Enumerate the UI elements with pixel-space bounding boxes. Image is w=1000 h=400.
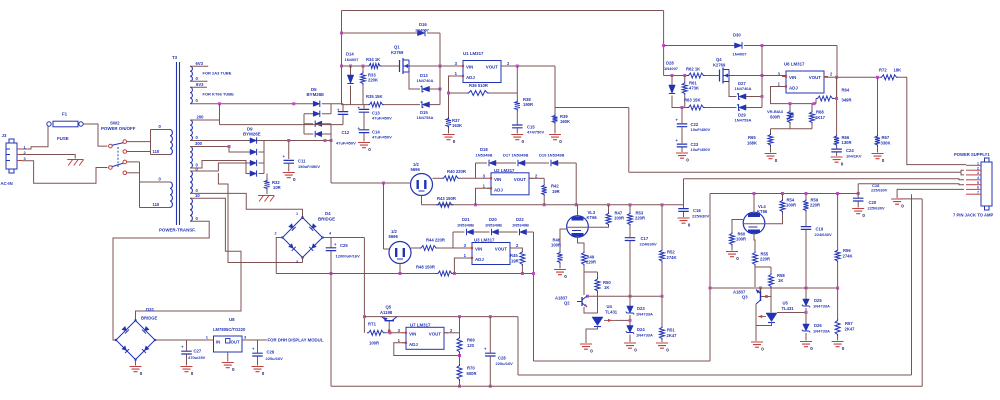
svg-text:C20: C20 [869, 200, 877, 205]
svg-text:10: 10 [195, 193, 200, 198]
zener D13 1N4740A [422, 86, 430, 91]
capacitor C25 12000uF/16V [330, 238, 332, 248]
svg-text:0: 0 [564, 274, 567, 279]
resistor R55 220R [754, 233, 755, 251]
svg-text:1: 1 [296, 212, 298, 216]
wire SW2 pole2 outputs to primary P2 [127, 161, 140, 163]
capacitor C28 220u/16V [489, 317, 491, 353]
transformer secondary S2 6V3 KT66 [190, 87, 192, 103]
svg-text:C12: C12 [342, 130, 350, 135]
svg-text:220R: 220R [586, 260, 596, 265]
svg-text:POWER ON/OFF: POWER ON/OFF [101, 126, 136, 131]
svg-text:130R: 130R [842, 140, 852, 145]
wire U3 VOUT R45 [510, 248, 522, 250]
svg-text:100R: 100R [369, 341, 379, 346]
svg-text:100R: 100R [786, 203, 796, 208]
regulator U8 LM7805C/TO220 [214, 336, 243, 352]
transistor Q5 A1198 [385, 320, 395, 322]
svg-text:0: 0 [453, 139, 456, 144]
resistor R50 1K [584, 271, 598, 273]
svg-text:K2769: K2769 [713, 63, 726, 68]
wire U8 output [242, 339, 267, 341]
wire VL3 grid to R47 [568, 226, 609, 227]
wire U4 anode to ground [586, 326, 598, 343]
resistor R60 100R [732, 220, 743, 233]
svg-text:BRIDGE: BRIDGE [141, 316, 157, 321]
tube V2 half 5696 [389, 242, 411, 264]
wire SW2 pole1 outputs to primary P1 [127, 141, 151, 143]
svg-text:190R: 190R [523, 102, 533, 107]
ground D26 [800, 342, 812, 347]
svg-text:1K: 1K [604, 285, 609, 290]
svg-text:5: 5 [977, 181, 979, 185]
transformer T3 core [177, 62, 180, 225]
svg-text:U5: U5 [783, 301, 789, 306]
wire to tube2 [383, 183, 385, 249]
wire 200 tap riser [219, 104, 221, 125]
svg-text:IN: IN [216, 340, 220, 345]
svg-text:300: 300 [195, 141, 203, 146]
svg-text:10uF/450V: 10uF/450V [691, 127, 711, 132]
svg-text:U3 LM317: U3 LM317 [474, 238, 495, 243]
wire loop bottom to VL4 rail [534, 360, 711, 362]
transformer secondary S3 200V [190, 120, 192, 141]
svg-text:R72: R72 [879, 68, 887, 73]
resistor R39 160K [554, 108, 556, 115]
svg-text:R57: R57 [845, 321, 853, 326]
svg-text:2K47: 2K47 [667, 333, 678, 338]
svg-text:1N4007: 1N4007 [415, 28, 430, 33]
diode string D18 D17 D19 [476, 162, 488, 164]
regulator U1 LM317 [463, 61, 501, 83]
resistor R68 1K17 [811, 104, 813, 111]
svg-text:224/630V: 224/630V [640, 242, 657, 247]
resistor R48 150R [436, 271, 453, 276]
tube VL4 KT66 [753, 194, 755, 213]
wire U5 anode to ground [756, 322, 772, 326]
resistor R67 330K [877, 77, 879, 134]
svg-text:R36 510R: R36 510R [469, 83, 488, 88]
svg-text:0: 0 [522, 139, 525, 144]
svg-text:POWER-TRANSF.: POWER-TRANSF. [159, 228, 196, 233]
zener D26 1N4733A [803, 324, 810, 331]
svg-text:VOUT: VOUT [429, 331, 442, 336]
svg-text:R67: R67 [882, 135, 890, 140]
wire D30 output vertical [761, 46, 763, 108]
svg-text:349R: 349R [842, 98, 852, 103]
svg-text:R42: R42 [551, 184, 559, 189]
capacitor C13 47uF/450V [363, 105, 365, 109]
svg-text:2: 2 [275, 232, 277, 236]
resistor R64 349R [816, 96, 834, 101]
svg-text:0: 0 [232, 367, 235, 372]
wire D4 minus to bus [276, 238, 282, 274]
svg-text:U8: U8 [229, 317, 235, 322]
svg-text:VIN: VIN [494, 177, 501, 182]
svg-text:0: 0 [842, 346, 845, 351]
zener D23 1N4733A [629, 305, 631, 306]
resistor R49 220R [578, 237, 585, 252]
wire U2 string riser [475, 163, 477, 178]
transistor Q4 K2769 [720, 68, 724, 84]
transformer primary winding P2 [170, 182, 172, 208]
chassis ground AC [67, 160, 84, 166]
svg-text:D25: D25 [814, 298, 822, 303]
wire pin5 row [858, 184, 964, 185]
resistor R32 10R [266, 174, 268, 180]
svg-text:1K17: 1K17 [815, 115, 826, 120]
wire U6 ADJ network [771, 87, 817, 104]
diode string D21 D20 D22 [453, 231, 465, 233]
svg-text:ADJ: ADJ [409, 342, 418, 347]
zener D27 1N4740A [739, 94, 747, 99]
svg-text:C16: C16 [693, 208, 701, 213]
svg-text:47uF/450V: 47uF/450V [336, 141, 356, 146]
resistor R65 168K [770, 129, 772, 133]
svg-text:LM7805C/TO220: LM7805C/TO220 [213, 327, 246, 332]
wire tube2 bottom [399, 264, 401, 274]
svg-text:110: 110 [153, 202, 160, 207]
svg-text:100R: 100R [551, 243, 561, 248]
svg-text:0: 0 [862, 213, 865, 218]
svg-text:U1 LM317: U1 LM317 [463, 51, 484, 56]
svg-text:SW2: SW2 [110, 121, 120, 126]
capacitor C27 470u/25V [186, 340, 188, 351]
regulator U3 LM317 [472, 243, 510, 265]
svg-text:0: 0 [262, 371, 265, 376]
wire net S3-0 [190, 140, 331, 142]
ground D24 [624, 343, 636, 348]
ground C14 [358, 143, 370, 148]
svg-text:10R: 10R [273, 185, 281, 190]
svg-text:470u/25V: 470u/25V [188, 355, 206, 360]
wire S5-0b to bridge D4 AC1 [190, 193, 303, 219]
wire net 200V AC top [190, 103, 313, 105]
transistor Q3 A1837 [760, 288, 762, 291]
svg-text:1K: 1K [778, 278, 783, 283]
shunt U5 TL431 [766, 313, 777, 322]
resistor R51 2K47 [661, 296, 663, 326]
svg-text:1N4733A: 1N4733A [636, 312, 653, 317]
wire S5 tap to bridge D4 AC2 [218, 173, 302, 263]
svg-text:7 PIN JACK TO AMP: 7 PIN JACK TO AMP [953, 213, 993, 218]
svg-text:110: 110 [153, 149, 160, 154]
svg-text:1N4733A: 1N4733A [813, 304, 830, 309]
svg-text:168K: 168K [747, 141, 757, 146]
capacitor C26 220u/16V [257, 340, 259, 353]
svg-text:FUSE: FUSE [57, 136, 69, 141]
regulator U6 LM317 [786, 71, 824, 93]
svg-text:0: 0 [736, 256, 739, 261]
svg-text:VR-BIA3: VR-BIA3 [767, 109, 784, 114]
svg-text:47uF/450V: 47uF/450V [372, 135, 392, 140]
svg-text:BYM26E: BYM26E [243, 132, 261, 137]
ground D31 [135, 360, 137, 366]
wire U6 VIN row [664, 75, 687, 77]
ground R39 [549, 135, 561, 140]
svg-text:R69: R69 [467, 338, 475, 343]
svg-text:0: 0 [590, 349, 593, 354]
thermistor RT1 500R [367, 330, 385, 335]
wire main HV rail [342, 65, 368, 67]
svg-text:K2769: K2769 [391, 50, 404, 55]
wire U2 VOUT to R42 [529, 177, 544, 179]
svg-text:TL431: TL431 [782, 306, 795, 311]
resistor R33 220K [362, 66, 364, 72]
svg-text:0: 0 [666, 348, 669, 353]
resistor R70 500R [459, 353, 461, 364]
svg-text:474/750V: 474/750V [527, 130, 544, 135]
resistor R47 100R [608, 205, 610, 212]
svg-text:1N5349B: 1N5349B [457, 223, 474, 228]
wire Q5 bypass row [364, 316, 518, 318]
diode D28 1N4007 [671, 76, 673, 86]
wire pin6 to ground [897, 189, 964, 198]
regulator U2 LM317 [491, 173, 529, 195]
svg-text:0: 0 [368, 147, 371, 152]
svg-text:1N5349B: 1N5349B [476, 153, 493, 158]
svg-text:0: 0 [191, 371, 194, 376]
svg-text:100R: 100R [614, 216, 624, 221]
svg-text:ADJ: ADJ [494, 187, 503, 192]
svg-text:10uF/450V: 10uF/450V [691, 147, 711, 152]
svg-text:POWER SUPPLY1: POWER SUPPLY1 [954, 152, 990, 157]
wire rail to D30 block [663, 11, 665, 76]
svg-text:D4: D4 [325, 211, 331, 216]
ground R57 [832, 342, 844, 347]
svg-text:D14: D14 [346, 52, 354, 57]
svg-text:R68: R68 [816, 110, 824, 115]
svg-text:D21: D21 [462, 217, 470, 222]
svg-text:VIN: VIN [466, 65, 473, 70]
diode D14 1N4007 [350, 66, 352, 75]
ground C24 [831, 157, 843, 162]
svg-text:0: 0 [775, 158, 778, 163]
ground pin6 [891, 199, 903, 204]
wire U3 string riser [452, 232, 454, 248]
wire heater feed to tube1 [330, 141, 332, 184]
svg-text:D23: D23 [637, 306, 645, 311]
ground R67 [872, 154, 884, 159]
wire D4 plus to C25 row [323, 237, 365, 239]
svg-text:220K: 220K [368, 78, 378, 83]
svg-text:0: 0 [293, 177, 296, 182]
svg-text:FOR DHH DISPLAY MODUL: FOR DHH DISPLAY MODUL [268, 338, 324, 343]
svg-text:D30: D30 [733, 33, 741, 38]
resistor R35 15K [368, 102, 384, 107]
svg-text:0: 0 [761, 347, 764, 352]
svg-text:150uF/450V: 150uF/450V [298, 164, 320, 169]
svg-text:1N4733A: 1N4733A [813, 329, 830, 334]
svg-text:160K: 160K [560, 119, 570, 124]
svg-text:0: 0 [688, 223, 691, 228]
svg-text:0: 0 [841, 162, 844, 167]
svg-text:D16: D16 [419, 22, 427, 27]
wire U3 ADJ [454, 258, 472, 274]
svg-text:104/1KV: 104/1KV [846, 154, 862, 159]
svg-text:R45: R45 [510, 253, 518, 258]
wire U1 ADJ feedback [449, 76, 464, 117]
bus to pin7 [518, 374, 912, 376]
resistor R43 150R [436, 202, 453, 207]
svg-text:RT1: RT1 [368, 322, 377, 327]
wire D4 bottom vertex [302, 258, 304, 263]
resistor R62 1K [687, 73, 705, 78]
svg-text:R62 1K: R62 1K [686, 67, 700, 72]
wire U7 ADJ loop [394, 343, 460, 356]
svg-text:U2 LM317: U2 LM317 [494, 168, 515, 173]
svg-text:D28: D28 [666, 61, 674, 66]
svg-text:VOUT: VOUT [486, 65, 499, 70]
resistor R37 163K [446, 117, 451, 128]
svg-text:225/630V: 225/630V [692, 214, 709, 219]
svg-text:C19: C19 [816, 227, 824, 232]
svg-text:D18: D18 [480, 147, 488, 152]
ground C20 [852, 209, 864, 214]
svg-text:Q2: Q2 [564, 301, 570, 306]
resistor R61 473K [684, 76, 686, 82]
svg-text:F1: F1 [62, 112, 68, 117]
transformer secondary S1 6V3 2A3 [190, 66, 192, 81]
svg-text:1N5349B: 1N5349B [485, 223, 502, 228]
svg-text:6V3: 6V3 [196, 82, 204, 87]
wire pin4 row [684, 179, 965, 180]
svg-text:D20: D20 [489, 217, 497, 222]
svg-text:C27: C27 [194, 349, 202, 354]
svg-text:1: 1 [977, 162, 979, 166]
ground U8 [227, 352, 229, 362]
wire VL4 node row [710, 287, 838, 289]
svg-text:R40 220R: R40 220R [447, 169, 466, 174]
svg-text:0: 0 [901, 204, 904, 209]
ground R37 [443, 135, 455, 140]
ground bus [331, 385, 922, 387]
svg-text:5696: 5696 [389, 234, 399, 239]
svg-text:6V3: 6V3 [196, 61, 204, 66]
wire D30 rail drop to VOUT [836, 46, 838, 78]
wire U3 string to loop [533, 232, 535, 361]
svg-text:100R: 100R [736, 237, 746, 242]
svg-text:225/630V: 225/630V [871, 189, 888, 193]
svg-text:120: 120 [467, 343, 475, 348]
shunt U4 TL431 [592, 317, 603, 326]
wire VL3 node row [588, 295, 663, 297]
svg-text:1N4753A: 1N4753A [735, 118, 752, 123]
svg-text:12000uF/16V: 12000uF/16V [336, 254, 361, 259]
capacitor C23 10uF/450V [681, 127, 683, 143]
wire ADJ lower row [771, 128, 813, 130]
svg-text:FOR KT66 TUBE: FOR KT66 TUBE [203, 92, 235, 97]
resistor R52 274K [661, 205, 663, 249]
chassis ground R32 [258, 196, 275, 202]
wire Q2 emitter to TL431 [584, 307, 598, 313]
wire Q4 source to D27 [729, 82, 737, 97]
resistor R53 220R [629, 205, 631, 212]
svg-text:ADJ: ADJ [789, 86, 798, 91]
wire R35 D15 row [342, 104, 369, 106]
wire U2 ADJ [476, 188, 492, 205]
svg-text:1N5349B: 1N5349B [512, 223, 529, 228]
connector J3 AC-IN [6, 143, 17, 169]
transformer secondary S5 [190, 171, 192, 193]
wire S6-0 to bridge D31 [113, 221, 209, 340]
svg-text:VOUT: VOUT [514, 177, 527, 182]
wire pin1 [964, 164, 966, 166]
wire Q1 source to D13 [409, 72, 420, 89]
svg-text:200: 200 [197, 115, 205, 120]
transformer secondary S4 300V [190, 147, 192, 169]
capacitor C19 224/630V [801, 227, 812, 230]
svg-text:19R: 19R [552, 189, 560, 194]
svg-text:Q5: Q5 [386, 305, 392, 310]
capacitor C11 150uF/450V [288, 141, 290, 160]
wire HV input vertical [341, 11, 343, 105]
svg-text:OUT: OUT [231, 340, 240, 345]
svg-text:0: 0 [882, 158, 885, 163]
capacitor C16 225/630V [683, 205, 685, 208]
svg-text:BRIDGE: BRIDGE [318, 217, 335, 222]
wire D31 plus to U8 [155, 339, 214, 341]
ground R51 [656, 343, 668, 348]
resistor R44 220R [420, 246, 438, 251]
svg-text:R44 220R: R44 220R [426, 238, 445, 243]
svg-text:1N4753A: 1N4753A [417, 115, 434, 120]
wire R63 D29 row [705, 107, 737, 109]
svg-text:163K: 163K [452, 123, 462, 128]
svg-text:R48 150R: R48 150R [416, 265, 435, 270]
svg-text:VOUT: VOUT [495, 247, 508, 252]
wire 330V top rail [342, 10, 664, 12]
svg-text:330K: 330K [881, 141, 891, 146]
svg-text:R64: R64 [842, 88, 850, 93]
wire J3 pin1 to fuse [22, 126, 48, 149]
svg-text:Q4: Q4 [716, 57, 722, 62]
svg-text:R34 1K: R34 1K [366, 57, 380, 62]
svg-text:FOR 2A3 TUBE: FOR 2A3 TUBE [203, 71, 232, 76]
transformer secondary S6 10V [190, 198, 192, 221]
resistor R69 120 [459, 317, 461, 337]
wire riser to pin7 bus [517, 317, 519, 375]
resistor R72 18K [880, 75, 898, 80]
svg-text:R43 150R: R43 150R [437, 196, 456, 201]
capacitor C15 474 [512, 125, 523, 128]
ground R46 [554, 270, 566, 275]
wire pin3 branch [961, 172, 964, 175]
svg-text:500R: 500R [467, 371, 477, 376]
transistor Q2 A1837 [581, 297, 583, 306]
wire VL4 rail [710, 193, 858, 195]
svg-text:6: 6 [977, 186, 979, 190]
svg-text:R52: R52 [667, 250, 675, 255]
resistor R40 220R [442, 176, 460, 181]
wire tube1 bottom [421, 196, 423, 205]
svg-text:D26: D26 [814, 323, 822, 328]
connector POWER SUPPLY1 [981, 162, 992, 206]
tube VL3 KT66 [567, 216, 589, 238]
svg-text:Q3: Q3 [742, 295, 748, 300]
svg-text:220u/16V: 220u/16V [266, 356, 284, 361]
svg-text:U7 LM317: U7 LM317 [410, 323, 431, 328]
svg-text:A1198: A1198 [380, 310, 393, 315]
svg-text:0: 0 [810, 346, 813, 351]
ground C16 [678, 218, 690, 223]
wire heater return bus [276, 273, 436, 275]
svg-text:18K: 18K [894, 68, 902, 73]
svg-text:D17 1N5349B: D17 1N5349B [503, 153, 528, 158]
svg-text:C25: C25 [340, 243, 348, 248]
svg-text:2: 2 [977, 166, 979, 170]
wire tube1 to R40 [433, 177, 443, 179]
